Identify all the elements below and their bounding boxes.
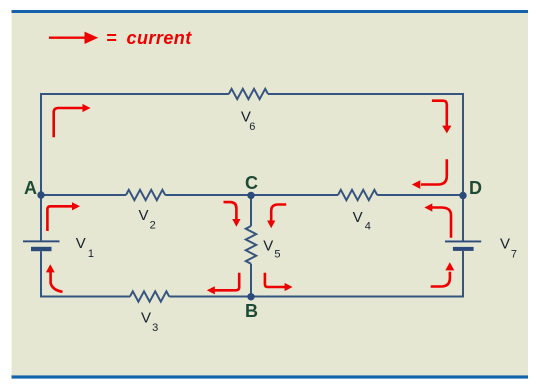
current arrow top-left corner [54,104,91,137]
svg-text:C: C [245,173,258,193]
resistor V3 [130,291,169,301]
svg-text:7: 7 [511,248,517,260]
node B [247,293,254,300]
svg-text:2: 2 [150,220,156,232]
svg-text:A: A [24,178,37,198]
wire left A to battery V1 [40,195,42,240]
label V4 [353,209,371,233]
wire middle V4 to D [377,194,463,196]
current arrow left of node C [224,202,241,227]
current arrow right of node B [265,273,293,291]
battery V1 [23,240,60,251]
wire top-right segment [268,93,463,95]
svg-text:V: V [263,237,273,254]
bottom border [12,375,529,378]
wire bottom V3 to B [169,296,251,298]
resistor V4 [338,190,377,200]
node A [37,191,44,198]
wire right upper [462,93,464,195]
svg-text:V: V [500,235,510,252]
svg-text:B: B [245,301,258,321]
resistor V5 [246,226,256,264]
svg-text:=: = [106,28,117,48]
svg-text:V: V [76,235,86,252]
resistor V6 [229,89,268,99]
svg-text:V: V [353,209,363,226]
wire C to resistor V5 [250,195,252,226]
resistor V2 [126,190,165,200]
svg-text:3: 3 [152,322,158,334]
current arrow above node D [412,159,447,189]
svg-text:V: V [139,207,149,224]
svg-text:V: V [141,310,151,327]
label V5 [263,237,280,260]
current arrow below battery V7 [431,262,455,286]
node D [459,192,466,199]
current arrow above battery V7 [424,203,451,237]
wire resistor V5 to B [250,264,252,297]
wire D to battery V7 [462,195,464,241]
current arrow right of node C [267,205,286,229]
current arrow top-right corner [432,101,452,134]
top border [12,10,529,13]
svg-text:5: 5 [274,249,280,261]
node C [247,192,254,199]
current arrow left of node B [207,273,239,295]
legend current arrow [49,32,98,44]
current arrow at node A [47,202,80,231]
svg-text:4: 4 [365,220,371,232]
wire bottom B to right [251,296,463,298]
current arrow below battery V1 [46,264,63,292]
label V1 [76,235,94,260]
svg-text:current: current [127,28,193,48]
svg-text:6: 6 [249,121,255,133]
wire bottom-left segment [41,296,130,298]
label V2 [139,207,156,231]
wire left upper [40,93,42,195]
wire middle A to V2 [41,194,126,196]
wire middle V2 to C [165,194,251,196]
wire right battery V7 to bottom [462,251,464,298]
label V6 [241,108,256,132]
wire top-left segment [41,93,229,95]
label V3 [141,310,158,334]
wire left battery V1 to bottom [40,251,42,297]
svg-text:1: 1 [88,248,94,260]
battery V7 [445,241,481,251]
wire middle C to V4 [251,194,338,196]
label V7 [500,235,517,260]
svg-text:D: D [469,178,482,198]
